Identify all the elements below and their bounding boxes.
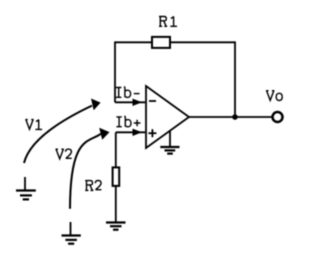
wire feedback top-right segment bbox=[170, 41, 235, 43]
arrow V2 curved bbox=[70, 134, 101, 209]
node junction output bbox=[232, 114, 238, 120]
resistor R2 bbox=[113, 167, 120, 186]
arrow Ib+ bbox=[133, 129, 143, 136]
ground under V2 bbox=[62, 222, 81, 244]
op-amp U1 bbox=[146, 86, 189, 148]
wire noninverting node down to R2 bbox=[115, 132, 117, 168]
ground under R2 bbox=[106, 223, 126, 230]
ground at op-amp bbox=[160, 131, 179, 154]
wire noninverting input bbox=[116, 131, 145, 133]
ground under V1 bbox=[16, 177, 36, 199]
op-amp minus sign bbox=[149, 100, 156, 102]
wire R2 to ground bbox=[115, 186, 117, 223]
wire inverting input bbox=[115, 101, 145, 103]
label V1 bbox=[25, 119, 42, 129]
label Ib+ bbox=[116, 116, 140, 127]
wire feedback top-left segment bbox=[115, 41, 152, 43]
wire feedback right vertical bbox=[234, 41, 236, 117]
wire op-amp output bbox=[189, 116, 272, 118]
label Ib- bbox=[116, 87, 140, 98]
arrow Ib- bbox=[133, 99, 143, 106]
label R2 bbox=[85, 181, 101, 191]
arrow V1 curved bbox=[24, 106, 92, 163]
label Vo bbox=[266, 91, 282, 101]
label R1 bbox=[159, 16, 177, 26]
op-amp plus sign bbox=[148, 129, 156, 137]
terminal Vo bbox=[273, 112, 283, 122]
label V2 bbox=[56, 149, 72, 159]
resistor R1 bbox=[152, 37, 170, 48]
wire feedback left vertical bbox=[114, 41, 116, 102]
